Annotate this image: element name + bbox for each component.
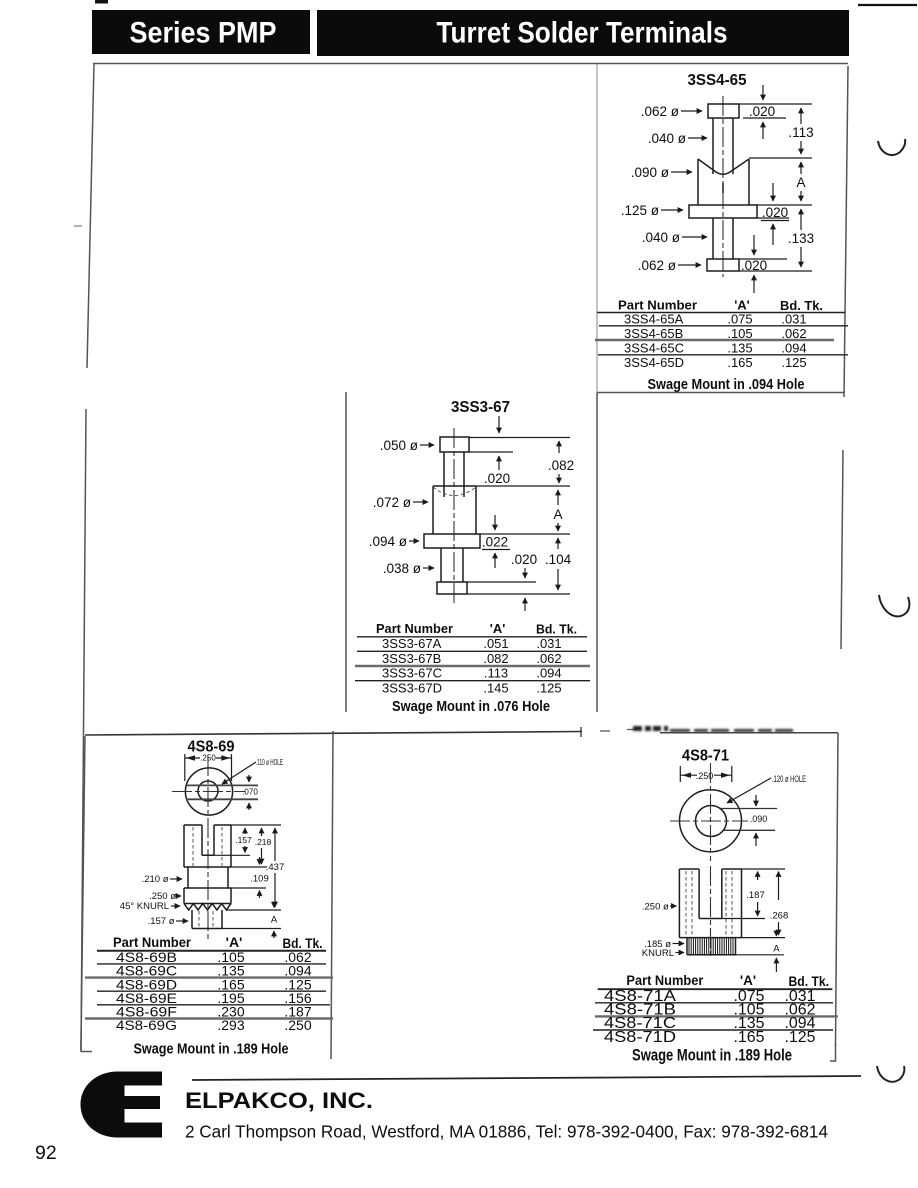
svg-text:.165: .165 [734, 1029, 765, 1046]
side view centerline [710, 866, 712, 959]
svg-text:.157: .157 [235, 835, 252, 845]
svg-text:3SS3-67A: 3SS3-67A [382, 636, 442, 651]
page curl mark 1 [878, 139, 905, 155]
svg-text:'A': 'A' [734, 298, 750, 313]
right extension lines [214, 825, 281, 929]
hidden lines in body [686, 871, 732, 935]
svg-text:KNURL: KNURL [642, 948, 674, 959]
svg-text:3SS4-65A: 3SS4-65A [624, 311, 684, 326]
svg-text:.135: .135 [727, 341, 752, 356]
svg-text:3SS4-65: 3SS4-65 [688, 72, 747, 89]
svg-text:.050 ø: .050 ø [380, 438, 418, 453]
dim .250 arrowheads [186, 755, 195, 760]
turret cup body [698, 159, 749, 205]
upper neck [713, 118, 733, 174]
svg-text:'A': 'A' [490, 621, 506, 636]
svg-text:.020: .020 [741, 258, 767, 273]
cup hidden funnel [433, 487, 476, 496]
3SS4-65 panel left border [596, 64, 598, 392]
centerline [453, 428, 455, 606]
horizontal centerline [172, 791, 245, 793]
svg-text:3SS4-65C: 3SS4-65C [624, 341, 684, 356]
lower neck [441, 548, 463, 582]
extension lines right [739, 104, 812, 271]
svg-text:.062: .062 [781, 326, 806, 341]
3SS3-67 panel left border [345, 392, 347, 712]
vertical centerline [207, 756, 209, 939]
top-right edge line [858, 4, 917, 6]
content frame top line [93, 63, 848, 65]
svg-text:.187: .187 [746, 890, 765, 901]
4S8-69 box bottom-left corner [81, 1042, 92, 1052]
svg-text:.040 ø: .040 ø [648, 131, 686, 146]
rule dashes [600, 730, 634, 732]
bottom flange [437, 582, 467, 594]
svg-text:.125: .125 [781, 355, 806, 370]
svg-text:.031: .031 [536, 636, 561, 651]
svg-text:.051: .051 [483, 636, 508, 651]
svg-text:.062 ø: .062 ø [638, 258, 676, 273]
svg-text:.250: .250 [284, 1017, 311, 1033]
svg-text:Part Number: Part Number [113, 934, 192, 950]
svg-text:.165: .165 [727, 355, 752, 370]
svg-text:92: 92 [35, 1142, 57, 1164]
svg-text:.210 ø: .210 ø [142, 874, 169, 885]
horizontal centerline [670, 820, 748, 822]
top flange [440, 437, 469, 452]
top-left edge mark [95, 0, 108, 4]
dim .250 label [200, 753, 216, 762]
svg-text:.113: .113 [484, 666, 508, 681]
svg-text:.110 ø HOLE: .110 ø HOLE [256, 758, 283, 767]
dim .250 ticks [185, 754, 232, 781]
svg-text:Turret Solder Terminals: Turret Solder Terminals [437, 17, 728, 50]
right extension lines [722, 869, 785, 955]
shoulder section [184, 888, 231, 904]
svg-text:.293: .293 [217, 1017, 244, 1033]
svg-text:.113: .113 [788, 125, 813, 140]
svg-text:.125 ø: .125 ø [621, 203, 659, 218]
svg-text:.062 ø: .062 ø [641, 104, 679, 119]
svg-text:Swage Mount in .189 Hole: Swage Mount in .189 Hole [632, 1047, 792, 1065]
svg-text:Part Number: Part Number [626, 973, 704, 988]
svg-text:A: A [553, 507, 562, 522]
content frame right border [841, 66, 848, 649]
svg-text:.437: .437 [266, 862, 285, 873]
header bar: Turret Solder Terminals [317, 10, 849, 56]
svg-text:3SS3-67: 3SS3-67 [451, 399, 510, 416]
svg-text:ELPAKCO, INC.: ELPAKCO, INC. [185, 1088, 373, 1113]
svg-text:.020: .020 [511, 552, 537, 567]
svg-text:.094: .094 [536, 666, 561, 681]
svg-text:.094 ø: .094 ø [369, 534, 407, 549]
content frame left border [81, 64, 94, 1051]
extension lines top [469, 438, 570, 453]
svg-text:3SS3-67C: 3SS3-67C [382, 666, 442, 681]
svg-text:4S8-71: 4S8-71 [682, 748, 729, 765]
ghost smudge (showthrough text) [633, 726, 668, 731]
dim .250 line [680, 774, 732, 776]
svg-text:45° KNURL: 45° KNURL [120, 901, 169, 912]
middle flange [424, 534, 480, 548]
svg-text:Series PMP: Series PMP [130, 17, 277, 50]
svg-text:.072 ø: .072 ø [373, 495, 411, 510]
vertical centerline [710, 763, 712, 861]
tick at rule [580, 727, 582, 737]
side view slotted body [679, 869, 741, 938]
speck at left margin [74, 225, 82, 227]
dim .020 flange [498, 416, 500, 433]
svg-text:.218: .218 [255, 837, 272, 847]
middle flange [689, 205, 757, 218]
shank [192, 910, 222, 929]
svg-text:.031: .031 [781, 311, 806, 326]
4S8-69 box right border [331, 731, 333, 1059]
svg-text:Part Number: Part Number [376, 621, 453, 636]
svg-text:Swage Mount in .189 Hole: Swage Mount in .189 Hole [134, 1041, 289, 1058]
4S8-69 box left border [81, 736, 85, 1044]
svg-text:3SS3-67D: 3SS3-67D [382, 680, 442, 695]
svg-text:4S8-69G: 4S8-69G [116, 1017, 177, 1033]
svg-text:Swage Mount in .076 Hole: Swage Mount in .076 Hole [392, 698, 550, 715]
cup body [433, 486, 476, 534]
3SS4-65 panel bottom border [597, 392, 845, 394]
upper neck [444, 452, 464, 497]
dim .250 arrowheads [682, 773, 691, 778]
svg-text:.022: .022 [482, 535, 508, 550]
svg-text:.133: .133 [788, 231, 814, 246]
svg-text:.038 ø: .038 ø [383, 561, 421, 576]
svg-text:.250 ø: .250 ø [642, 902, 669, 913]
svg-text:3SS4-65B: 3SS4-65B [624, 326, 683, 341]
lower neck [713, 218, 733, 259]
svg-text:A: A [773, 944, 780, 955]
svg-text:4S8-71D: 4S8-71D [604, 1029, 676, 1046]
svg-text:2 Carl Thompson Road, Westford: 2 Carl Thompson Road, Westford, MA 01886… [185, 1122, 828, 1142]
svg-text:Swage Mount in .094 Hole: Swage Mount in .094 Hole [648, 376, 805, 393]
svg-text:.157 ø: .157 ø [148, 916, 175, 927]
header bar: Series PMP [92, 10, 310, 54]
dim .250 ticks [680, 766, 732, 782]
4S8-71 box top rule [660, 732, 838, 734]
svg-text:.062: .062 [536, 651, 561, 666]
extension line flange top [480, 533, 570, 535]
svg-text:3SS3-67B: 3SS3-67B [382, 651, 441, 666]
top view outer circle [680, 790, 742, 852]
bottom section top rule left [85, 732, 582, 736]
svg-text:.040 ø: .040 ø [642, 230, 680, 245]
table header underline [597, 312, 845, 314]
top view outer circle [185, 768, 232, 815]
top flange [708, 104, 739, 118]
svg-text:.082: .082 [548, 458, 574, 473]
hole extension lines [186, 785, 258, 799]
svg-text:.090: .090 [750, 814, 768, 824]
svg-text:'A': 'A' [226, 934, 243, 950]
svg-text:Bd. Tk.: Bd. Tk. [789, 974, 830, 989]
svg-text:.094: .094 [781, 341, 806, 356]
svg-text:Part Number: Part Number [618, 298, 697, 313]
extension lines bottom [467, 582, 570, 594]
svg-text:.125: .125 [536, 680, 561, 695]
svg-text:.075: .075 [727, 311, 752, 326]
4S8-71 box bottom-right corner [830, 1044, 836, 1061]
svg-text:A: A [796, 175, 805, 190]
hole extension lines [719, 809, 777, 831]
cup center tick [722, 183, 724, 193]
extension line body top [476, 485, 570, 487]
svg-text:A: A [271, 915, 278, 926]
dim .250 line [185, 757, 232, 759]
svg-text:.145: .145 [483, 680, 508, 695]
footer rule [192, 1076, 861, 1080]
svg-text:.090 ø: .090 ø [631, 165, 669, 180]
knurl hatch [689, 938, 733, 955]
page curl mark 3 [877, 1066, 904, 1082]
top view hole [198, 781, 218, 801]
svg-text:.070: .070 [242, 788, 258, 797]
svg-text:.120 ø HOLE: .120 ø HOLE [772, 774, 806, 784]
knurl section outline [687, 938, 736, 955]
svg-text:.020: .020 [762, 205, 788, 220]
header underline [97, 950, 326, 952]
3SS3-67 panel right border [596, 393, 598, 713]
svg-text:.020: .020 [749, 104, 775, 119]
svg-text:.104: .104 [545, 552, 572, 567]
svg-text:'A': 'A' [740, 973, 756, 988]
hidden lines in shank [199, 911, 213, 928]
svg-text:Bd. Tk.: Bd. Tk. [536, 622, 577, 637]
header underline [598, 988, 833, 990]
centerline [722, 96, 724, 277]
bottom flange [707, 259, 739, 271]
middle section [184, 867, 231, 888]
table header underline [357, 636, 587, 638]
svg-text:.125: .125 [785, 1029, 816, 1046]
svg-text:.109: .109 [250, 874, 269, 885]
knurl zigzag [184, 904, 231, 911]
4S8-71 box right border [836, 733, 839, 1046]
top view hole [696, 806, 727, 837]
svg-text:.020: .020 [484, 471, 510, 486]
svg-text:3SS4-65D: 3SS4-65D [624, 355, 684, 370]
page curl mark 2 [879, 595, 909, 616]
side view slotted head [184, 825, 231, 867]
hidden lines in head [193, 827, 222, 866]
svg-text:.268: .268 [770, 911, 789, 922]
svg-text:.105: .105 [727, 326, 752, 341]
Elpakco E logo [81, 1072, 163, 1138]
svg-text:.082: .082 [483, 651, 508, 666]
